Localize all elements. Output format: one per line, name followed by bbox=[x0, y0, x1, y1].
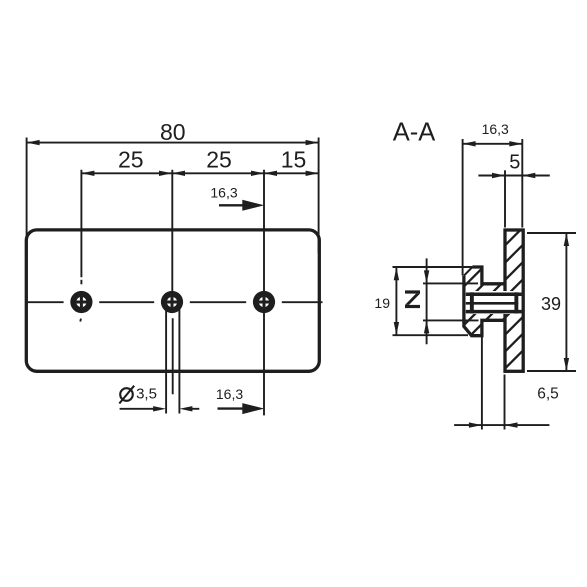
svg-text:3,5: 3,5 bbox=[136, 386, 157, 403]
svg-text:6,5: 6,5 bbox=[537, 385, 559, 402]
svg-text:16,3: 16,3 bbox=[210, 184, 237, 200]
svg-text:39: 39 bbox=[541, 294, 561, 314]
svg-text:A-A: A-A bbox=[393, 118, 436, 146]
svg-text:5: 5 bbox=[509, 152, 520, 174]
svg-text:25: 25 bbox=[118, 147, 144, 173]
svg-text:16,3: 16,3 bbox=[216, 386, 243, 402]
svg-text:15: 15 bbox=[281, 147, 307, 173]
svg-text:19: 19 bbox=[374, 295, 390, 311]
svg-text:25: 25 bbox=[206, 147, 232, 173]
svg-text:80: 80 bbox=[160, 119, 186, 145]
svg-text:16,3: 16,3 bbox=[482, 121, 509, 137]
